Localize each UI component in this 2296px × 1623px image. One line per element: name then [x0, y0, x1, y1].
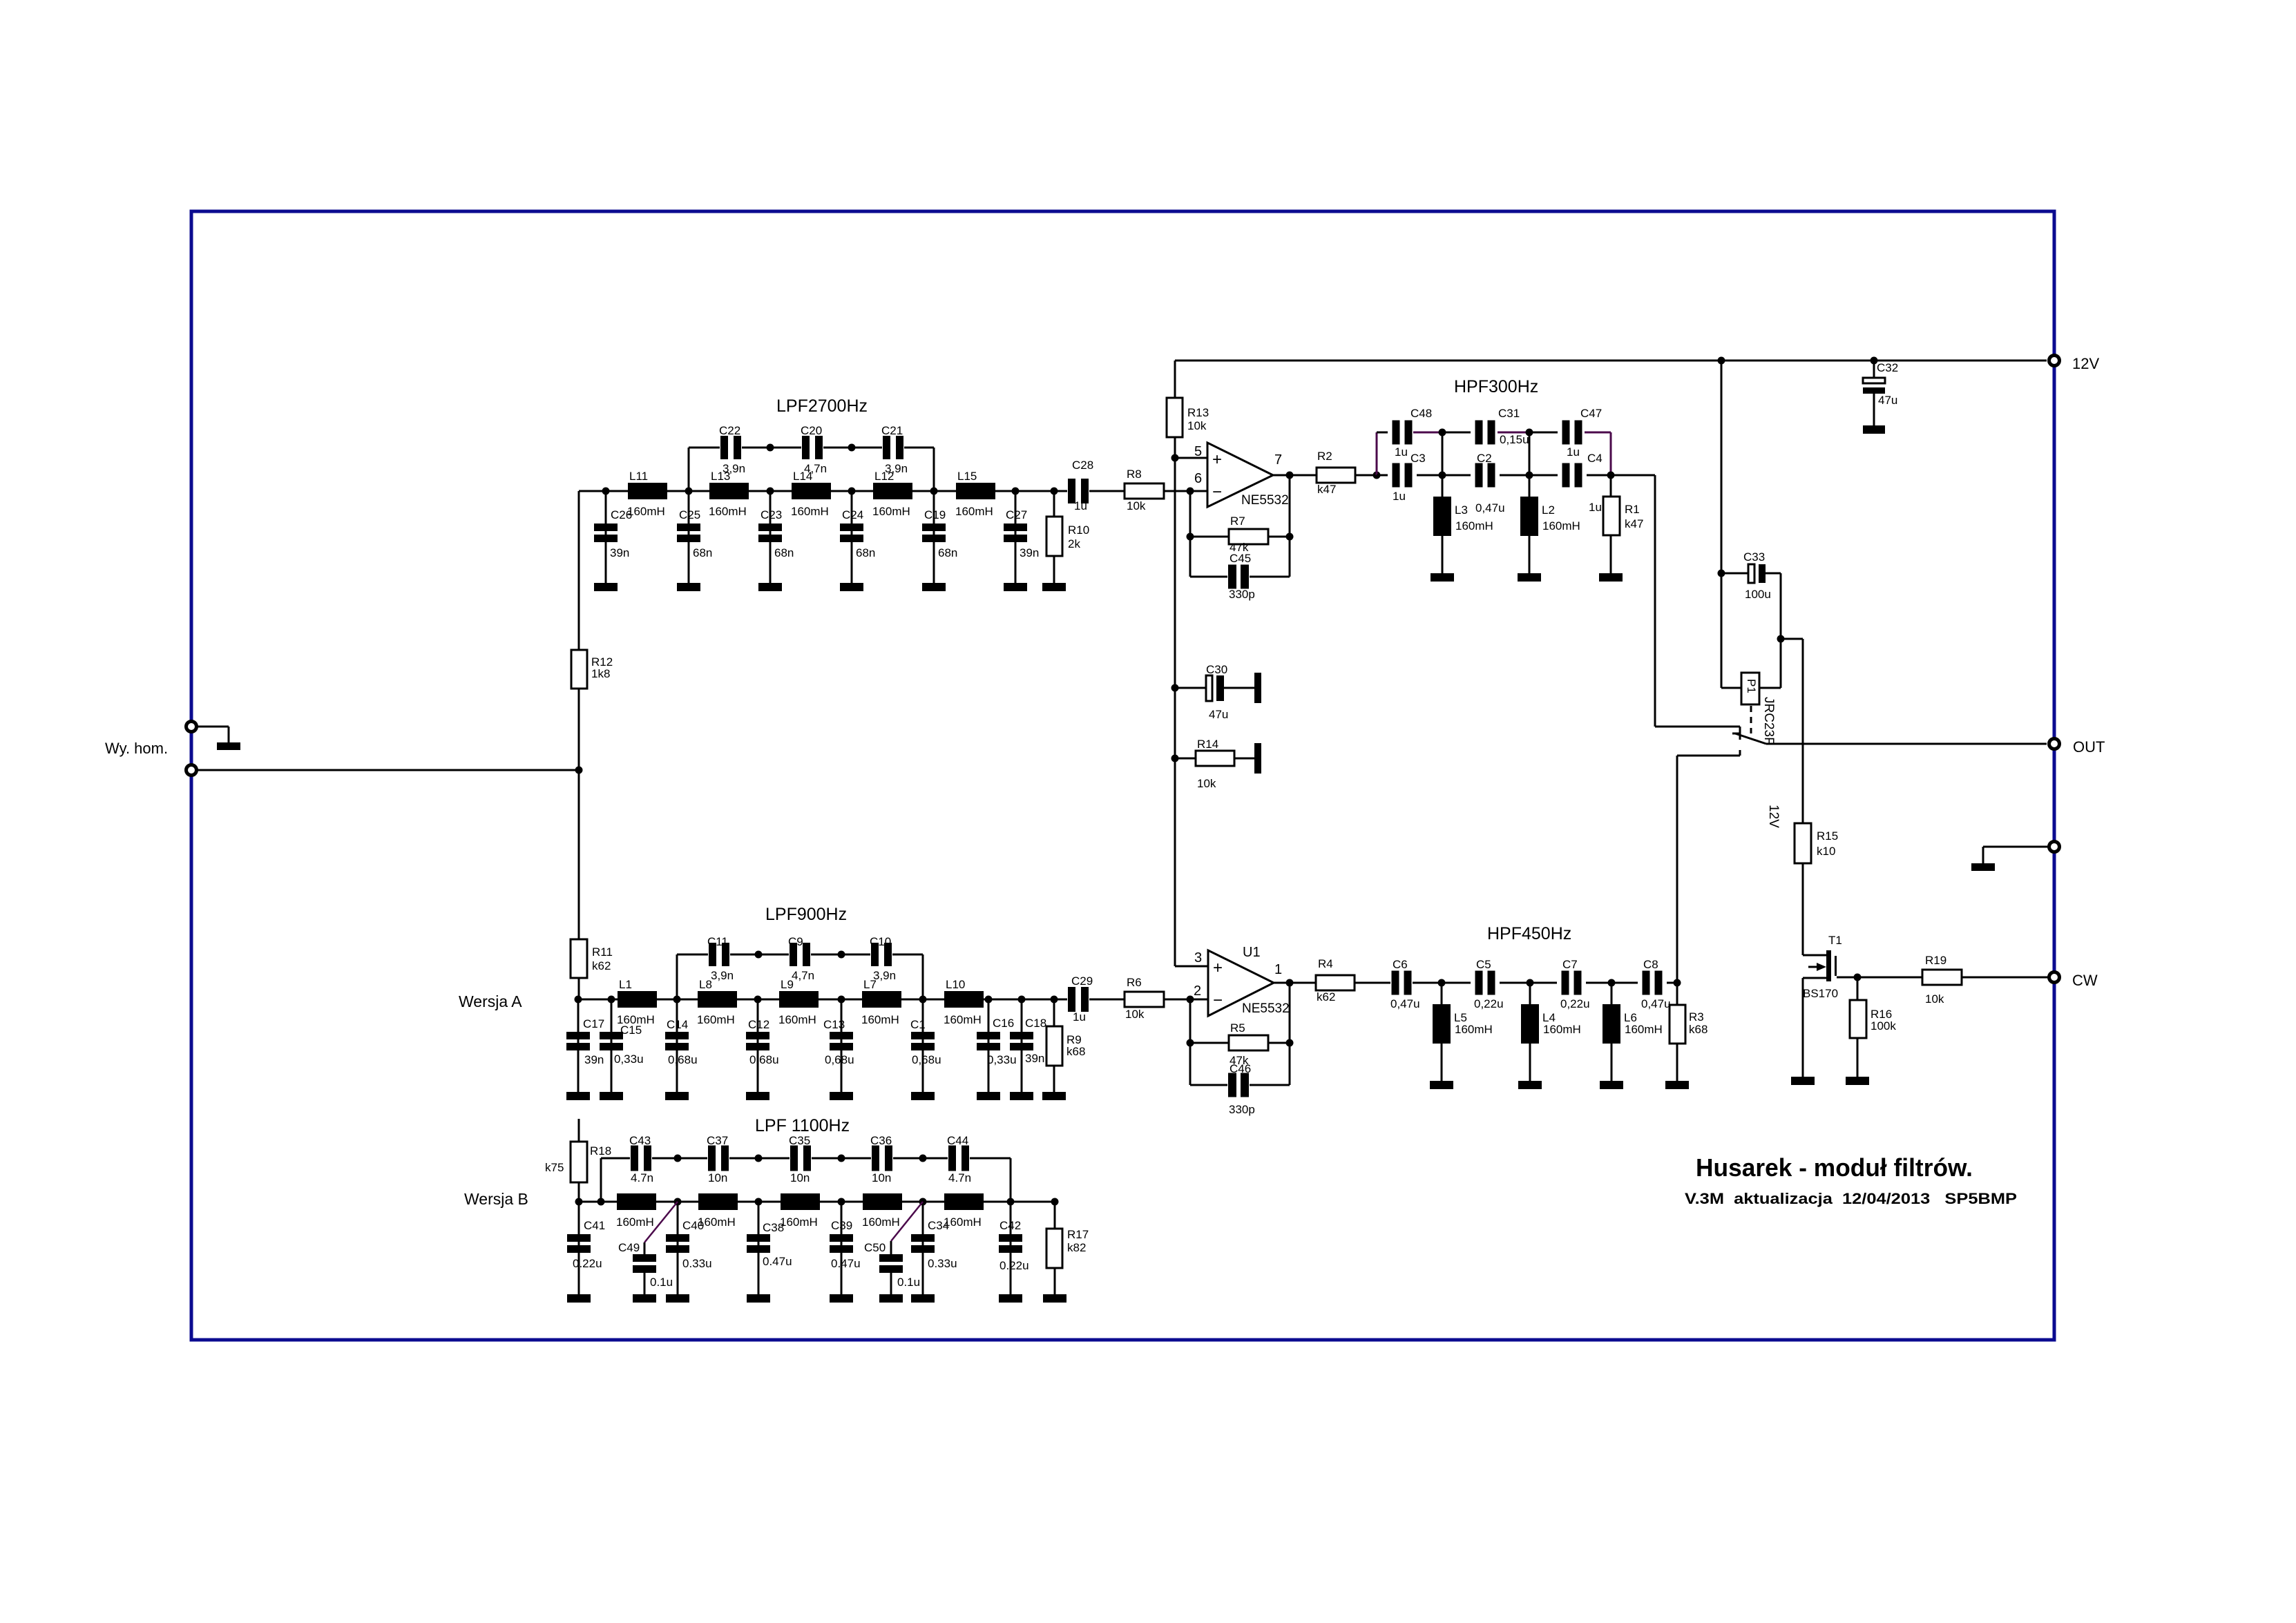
wire purple top segments [1413, 432, 1442, 434]
inductor L3 160mH [1431, 475, 1493, 582]
svg-text:160mH: 160mH [697, 1013, 735, 1026]
wire branch to R15 [1781, 638, 1803, 640]
node C41 junction [575, 1198, 583, 1206]
resistor R17 k82 [1043, 1202, 1089, 1303]
svg-text:C29: C29 [1071, 974, 1093, 988]
relay P1 JRC23F [1721, 673, 1781, 828]
wire OUT line [1766, 743, 2047, 745]
node C16 junction [985, 996, 993, 1003]
svg-text:C28: C28 [1072, 459, 1093, 472]
wire HPF450 row [1413, 982, 1471, 984]
node C39 junction [838, 1198, 845, 1206]
capacitor C43 4.7n [629, 1134, 653, 1184]
svg-text:160mH: 160mH [791, 505, 829, 518]
svg-text:L10: L10 [946, 978, 965, 991]
svg-text:R1: R1 [1625, 503, 1640, 516]
wire input riser [578, 491, 580, 650]
capacitor C46 330p [1190, 1062, 1290, 1116]
capacitor C12 0,68u [746, 999, 779, 1100]
wire LPF1100 top row [601, 1158, 630, 1160]
terminal aux with ground [2049, 842, 2060, 852]
resistor R16 100k [1846, 977, 1896, 1085]
inductor L12 160mH [872, 470, 912, 518]
svg-text:0.1u: 0.1u [897, 1276, 920, 1289]
svg-text:R7: R7 [1230, 515, 1245, 528]
svg-text:12V: 12V [2072, 355, 2099, 372]
svg-text:C34: C34 [928, 1219, 949, 1232]
svg-text:39n: 39n [584, 1053, 604, 1066]
svg-text:k68: k68 [1066, 1045, 1085, 1058]
inductor L2 160mH [1518, 475, 1580, 582]
node C18 junction [1018, 996, 1026, 1003]
svg-text:L2: L2 [1542, 503, 1555, 517]
wire LPF900 main line [579, 999, 1067, 1001]
node C42 junction [1007, 1198, 1015, 1206]
inductor L11 160mH [627, 470, 667, 518]
capacitor C33 100u (polarized) [1721, 550, 1781, 601]
node pin5 junction [1171, 454, 1179, 462]
node R9 junction [1051, 996, 1058, 1003]
svg-text:0.47u: 0.47u [763, 1255, 792, 1268]
svg-text:L11: L11 [629, 470, 648, 483]
svg-text:1k8: 1k8 [591, 667, 610, 680]
node junction [1777, 635, 1785, 643]
node C15 junction [608, 996, 615, 1003]
inductor L15 160mH [955, 470, 995, 518]
svg-text:1u: 1u [1567, 445, 1580, 459]
capacitor C21 3,9n [881, 424, 908, 475]
inductor 160mH [780, 1193, 820, 1229]
svg-text:C7: C7 [1562, 958, 1578, 971]
svg-text:T1: T1 [1828, 934, 1842, 947]
svg-text:10k: 10k [1187, 419, 1207, 432]
svg-text:C42: C42 [999, 1219, 1021, 1232]
svg-text:C8: C8 [1643, 958, 1658, 971]
terminal input ground [186, 722, 197, 732]
svg-text:C39: C39 [831, 1219, 852, 1232]
wire [578, 770, 580, 939]
svg-text:C45: C45 [1230, 552, 1251, 565]
svg-text:C12: C12 [748, 1018, 769, 1031]
capacitor C18 39n [1010, 999, 1046, 1100]
node input junction [575, 767, 583, 774]
resistor R15 k10 [1795, 823, 1838, 955]
svg-text:C11: C11 [707, 935, 728, 948]
capacitor C29 1u [1068, 974, 1093, 1024]
svg-text:R18: R18 [590, 1144, 611, 1158]
svg-text:0.47u: 0.47u [831, 1257, 861, 1270]
svg-text:C32: C32 [1877, 361, 1898, 374]
resistor R12 [571, 650, 613, 770]
capacitor C40 0.33u [666, 1202, 712, 1303]
node C1 junction [919, 996, 927, 1003]
node HPF300 input junction [1373, 472, 1381, 479]
svg-text:39n: 39n [1025, 1052, 1044, 1065]
node C30 junction [1171, 684, 1179, 692]
svg-text:JRC23F: JRC23F [1761, 697, 1776, 745]
svg-text:68n: 68n [938, 546, 957, 559]
svg-text:k82: k82 [1067, 1241, 1086, 1254]
svg-text:160mH: 160mH [1455, 519, 1493, 532]
svg-text:k47: k47 [1625, 517, 1643, 530]
svg-text:47u: 47u [1209, 708, 1228, 721]
wire HPF300 bottom row [1377, 474, 1388, 477]
svg-text:C4: C4 [1587, 452, 1603, 465]
svg-text:C20: C20 [801, 424, 822, 437]
svg-text:0,47u: 0,47u [1475, 501, 1505, 515]
resistor R18 k75 [545, 1142, 611, 1202]
inductor L7 160mH [861, 978, 901, 1026]
capacitor C49 0.1u [618, 1202, 678, 1303]
svg-text:C27: C27 [1006, 508, 1027, 521]
resistor R3 k68 [1665, 983, 1707, 1089]
resistor R14 10k [1175, 738, 1261, 790]
node C26 junction [602, 488, 610, 495]
wire HPF300 output riser [1654, 475, 1656, 727]
svg-text:1u: 1u [1589, 501, 1602, 514]
svg-text:C38: C38 [763, 1221, 784, 1234]
inductor L10 160mH [944, 978, 984, 1026]
capacitor C16 0,33u [977, 999, 1017, 1100]
node output junction [1286, 472, 1294, 479]
svg-text:0,68u: 0,68u [749, 1053, 779, 1066]
svg-text:L1: L1 [619, 978, 632, 991]
node C12 junction [754, 996, 762, 1003]
svg-text:7: 7 [1274, 452, 1282, 468]
svg-text:V.3M aktualizacja 12/04/2013: V.3M aktualizacja 12/04/2013 SP5BMP [1685, 1190, 2017, 1207]
node C27 junction [1012, 488, 1020, 495]
capacitor C20 4,7n [801, 424, 827, 475]
capacitor C31 0,15u [1475, 407, 1529, 446]
svg-text:L3: L3 [1455, 503, 1468, 517]
svg-text:5: 5 [1194, 444, 1202, 459]
node feedback junctions [1187, 1039, 1194, 1047]
svg-text:C50: C50 [864, 1241, 886, 1254]
capacitor C30 47u (polarized) [1175, 663, 1261, 721]
capacitor C4 1u [1562, 452, 1603, 514]
svg-text:R19: R19 [1925, 954, 1946, 967]
svg-text:C30: C30 [1206, 663, 1227, 676]
capacitor C27 39n [1004, 491, 1039, 591]
svg-text:160mH: 160mH [872, 505, 910, 518]
capacitor C32 47u (polarized) [1863, 361, 1898, 434]
svg-text:1u: 1u [1073, 1010, 1086, 1024]
terminal OUT [2049, 739, 2060, 749]
svg-text:C47: C47 [1580, 407, 1602, 420]
svg-text:330p: 330p [1229, 588, 1255, 601]
capacitor C9 4,7n [788, 935, 814, 982]
svg-text:k10: k10 [1817, 845, 1835, 858]
svg-text:6: 6 [1194, 471, 1202, 486]
wire riser right (purple) [1610, 432, 1612, 475]
svg-text:C3: C3 [1410, 452, 1426, 465]
capacitor C8 0,47u [1641, 958, 1671, 1010]
svg-text:C16: C16 [993, 1017, 1014, 1030]
resistor R1 k47 [1599, 475, 1643, 582]
svg-text:0,68u: 0,68u [668, 1053, 698, 1066]
svg-text:BS170: BS170 [1803, 987, 1838, 1000]
svg-text:C37: C37 [707, 1134, 728, 1147]
svg-text:C5: C5 [1476, 958, 1491, 971]
svg-text:C25: C25 [679, 508, 700, 521]
svg-text:U1: U1 [1243, 945, 1261, 960]
capacitor C39 0.47u [830, 1202, 861, 1303]
svg-text:R17: R17 [1067, 1228, 1089, 1241]
svg-text:Wy. hom.: Wy. hom. [105, 740, 168, 757]
wire 12V rail [1175, 360, 2047, 362]
resistor R2 k47 [1317, 450, 1377, 496]
inductor 160mH [862, 1193, 902, 1229]
wire rail riser to R13 [1174, 361, 1176, 398]
capacitor C13 0,68u [823, 999, 854, 1100]
capacitor C36 10n [870, 1134, 892, 1184]
svg-text:R6: R6 [1127, 976, 1142, 989]
svg-text:R11: R11 [592, 945, 613, 959]
svg-text:C31: C31 [1498, 407, 1520, 420]
svg-text:Wersja B: Wersja B [464, 1190, 528, 1208]
wire to switch bottom contact [1677, 755, 1740, 757]
terminal input signal [197, 769, 579, 771]
capacitor C24 68n [840, 491, 875, 591]
svg-text:R4: R4 [1318, 957, 1333, 970]
op-amp NE5532 (top half) [1194, 443, 1289, 508]
svg-text:160mH: 160mH [616, 1216, 654, 1229]
svg-text:C18: C18 [1025, 1017, 1046, 1030]
svg-text:160mH: 160mH [944, 1013, 982, 1026]
svg-text:0,68u: 0,68u [825, 1053, 854, 1066]
svg-text:C22: C22 [719, 424, 740, 437]
capacitor C26 39n [594, 491, 632, 591]
node C40 junction [674, 1198, 682, 1206]
capacitor C10 3,9n [870, 935, 896, 982]
svg-text:C24: C24 [842, 508, 863, 521]
svg-text:68n: 68n [856, 546, 875, 559]
capacitor C41 0.22u [567, 1202, 605, 1303]
svg-text:10n: 10n [872, 1171, 891, 1184]
terminal 12V [2049, 356, 2060, 366]
capacitor C37 10n [707, 1134, 729, 1184]
svg-text:k75: k75 [545, 1161, 564, 1174]
wire long vertical [1174, 458, 1176, 966]
resistor R9 k68 [1042, 999, 1085, 1100]
svg-text:0,33u: 0,33u [987, 1053, 1017, 1066]
inductor L1 160mH [617, 978, 657, 1026]
wire output [1274, 982, 1316, 984]
inductor L14 160mH [791, 470, 831, 518]
svg-text:10n: 10n [790, 1171, 810, 1184]
svg-text:C1: C1 [910, 1018, 926, 1031]
svg-text:4,7n: 4,7n [792, 969, 814, 982]
wire HPF450 output riser [1676, 756, 1678, 983]
wire feedback right [1289, 983, 1291, 1085]
node C33 left junction [1718, 570, 1725, 577]
node C32 junction [1871, 357, 1878, 365]
node rail junction [1718, 357, 1725, 365]
capacitor C17 39n [566, 999, 604, 1100]
svg-text:R13: R13 [1187, 406, 1209, 419]
capacitor C14 0,68u [665, 999, 698, 1100]
svg-text:160mH: 160mH [1543, 1023, 1581, 1036]
svg-text:160mH: 160mH [1455, 1023, 1493, 1036]
svg-text:C33: C33 [1743, 550, 1765, 564]
svg-text:OUT: OUT [2073, 738, 2105, 756]
wire Wersja B feed [578, 1119, 580, 1142]
wire feedback left [1189, 491, 1192, 577]
svg-text:3,9n: 3,9n [873, 969, 896, 982]
node C14 junction [673, 996, 681, 1003]
inductor L4 160mH [1518, 983, 1581, 1089]
svg-text:100u: 100u [1745, 588, 1771, 601]
svg-text:2: 2 [1194, 983, 1201, 999]
capacitor C11 3,9n [707, 935, 734, 982]
capacitor C7 0,22u [1560, 958, 1590, 1010]
svg-text:0,22u: 0,22u [1474, 997, 1504, 1010]
wire [197, 726, 229, 728]
svg-text:0,47u: 0,47u [1390, 997, 1420, 1010]
svg-text:0.1u: 0.1u [650, 1276, 673, 1289]
svg-text:0.33u: 0.33u [682, 1257, 712, 1270]
wire LPF2700 main line [579, 490, 1067, 492]
resistor R11 [571, 939, 613, 999]
svg-text:10k: 10k [1127, 499, 1146, 512]
svg-text:k62: k62 [1317, 990, 1335, 1003]
svg-text:C19: C19 [924, 508, 946, 521]
svg-text:C13: C13 [823, 1018, 845, 1031]
svg-text:R2: R2 [1317, 450, 1332, 463]
svg-text:C9: C9 [788, 935, 803, 948]
svg-text:C14: C14 [667, 1018, 688, 1031]
svg-text:+: + [1212, 450, 1222, 469]
svg-text:Wersja A: Wersja A [459, 992, 522, 1010]
node top row junctions [674, 1155, 682, 1162]
svg-text:LPF900Hz: LPF900Hz [765, 905, 847, 924]
capacitor C42 0.22u [999, 1202, 1029, 1303]
svg-text:68n: 68n [693, 546, 712, 559]
resistor R7 47k [1190, 515, 1290, 554]
svg-text:160mH: 160mH [861, 1013, 899, 1026]
capacitor C50 0.1u [864, 1202, 923, 1303]
capacitor C48 1u [1393, 407, 1433, 459]
resistor R19 10k [1922, 954, 2048, 1006]
capacitor C38 0.47u [747, 1202, 792, 1303]
capacitor C5 0,22u [1474, 958, 1504, 1010]
op-amp U1 NE5532 [1194, 945, 1290, 1016]
svg-text:C49: C49 [618, 1241, 640, 1254]
node C17 junction [575, 996, 582, 1003]
svg-text:R3: R3 [1689, 1010, 1704, 1024]
svg-text:47u: 47u [1878, 394, 1897, 407]
svg-text:10k: 10k [1125, 1008, 1145, 1021]
capacitor C35 10n [789, 1134, 811, 1184]
svg-text:0.22u: 0.22u [999, 1259, 1029, 1272]
capacitor C45 330p [1190, 552, 1290, 601]
node feedback junctions [1187, 533, 1194, 541]
capacitor C25 68n [677, 491, 712, 591]
svg-text:R8: R8 [1127, 468, 1142, 481]
node C38 junction [755, 1198, 763, 1206]
svg-text:160mH: 160mH [944, 1216, 982, 1229]
inductor L5 160mH [1430, 983, 1493, 1089]
switch (relay contact) [1732, 733, 1766, 744]
svg-text:10n: 10n [708, 1171, 727, 1184]
wire HPF300 top row [1377, 432, 1388, 434]
wire mid risers [1442, 432, 1444, 475]
svg-text:0,33u: 0,33u [614, 1053, 644, 1066]
svg-text:C48: C48 [1410, 407, 1432, 420]
svg-text:3,9n: 3,9n [711, 969, 734, 982]
inductor 160mH [698, 1193, 738, 1229]
resistor R4 k62 [1316, 957, 1390, 1003]
node R14 junction [1171, 755, 1179, 762]
svg-text:39n: 39n [610, 546, 629, 559]
node pin2 [1187, 996, 1194, 1003]
svg-text:−: − [1213, 991, 1223, 1010]
svg-text:C40: C40 [682, 1219, 704, 1232]
node R10 junction [1051, 488, 1058, 495]
wire LPF2700 top row [689, 447, 720, 449]
node C34 junction [919, 1198, 927, 1206]
node C23 junction [767, 488, 774, 495]
svg-text:100k: 100k [1871, 1019, 1896, 1033]
terminal CW [2049, 972, 2060, 983]
svg-text:C17: C17 [583, 1017, 604, 1030]
svg-text:68n: 68n [774, 546, 794, 559]
svg-text:3,9n: 3,9n [723, 462, 745, 475]
capacitor C22 3,9n [719, 424, 745, 475]
resistor R8 10k [1125, 468, 1164, 512]
svg-text:0.22u: 0.22u [573, 1257, 602, 1270]
node top row junctions [767, 444, 774, 452]
inductor 160mH [616, 1193, 656, 1229]
transistor T1 BS170 [1791, 934, 1922, 1085]
svg-text:2k: 2k [1068, 537, 1080, 550]
svg-text:C23: C23 [760, 508, 782, 521]
svg-text:160mH: 160mH [862, 1216, 900, 1229]
wire feedback left [1189, 999, 1192, 1085]
border frame [191, 211, 2054, 1340]
svg-text:160mH: 160mH [627, 505, 665, 518]
svg-text:1: 1 [1274, 962, 1282, 977]
svg-text:k68: k68 [1689, 1023, 1707, 1036]
node C25 junction [685, 488, 693, 495]
svg-text:160mH: 160mH [1625, 1023, 1663, 1036]
svg-text:12V: 12V [1766, 805, 1781, 828]
wire output [1273, 474, 1317, 477]
capacitor C44 4.7n [947, 1134, 971, 1184]
node junctions [1438, 979, 1446, 987]
svg-text:10k: 10k [1197, 777, 1216, 790]
svg-text:0,47u: 0,47u [1641, 997, 1671, 1010]
capacitor C19 68n [922, 491, 957, 591]
svg-text:4.7n: 4.7n [631, 1171, 653, 1184]
wire rail to relay riser [1721, 361, 1723, 688]
inductor 160mH [944, 1193, 984, 1229]
capacitor C6 0,47u [1390, 958, 1420, 1010]
svg-text:+: + [1213, 959, 1223, 977]
svg-text:C15: C15 [620, 1024, 642, 1037]
inductor L8 160mH [697, 978, 737, 1026]
capacitor C47 1u [1562, 407, 1603, 459]
svg-text:L15: L15 [957, 470, 977, 483]
svg-text:−: − [1212, 483, 1222, 501]
svg-text:C36: C36 [870, 1134, 892, 1147]
node main junctions [597, 1198, 605, 1206]
capacitor C28 1u [1068, 459, 1093, 512]
wire [228, 727, 230, 742]
svg-text:1u: 1u [1395, 445, 1408, 459]
svg-text:160mH: 160mH [955, 505, 993, 518]
node top row junctions [755, 951, 763, 959]
